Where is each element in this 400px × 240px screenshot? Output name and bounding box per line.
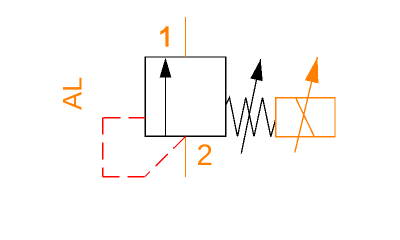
spring [226,97,276,136]
proportional solenoid box [276,98,335,137]
svg-text:AL: AL [58,77,88,110]
solenoid diagonal [296,98,315,137]
port 2 wire [185,136,187,177]
port label 1 [160,26,168,46]
solenoid adjustment arrow shaft [295,57,318,153]
pilot line segment (dashed, diagonal to port 2 junction) [145,137,186,177]
flow path line (inside valve) [165,75,167,136]
svg-text:2: 2 [196,139,212,172]
adjustment arrowhead [250,59,262,81]
adjustment arrow shaft (through spring) [241,59,260,153]
flow arrowhead (inside valve, pointing up) [160,58,172,78]
pilot line segment (dashed, bottom horizontal) [103,176,145,178]
solenoid adjustment arrowhead [305,57,319,83]
pilot line segment (dashed, vertical) [102,118,104,177]
pilot line segment (dashed, to left of valve) [103,117,146,119]
valve body U1 (square) [145,57,225,136]
port 1 wire [185,17,187,57]
